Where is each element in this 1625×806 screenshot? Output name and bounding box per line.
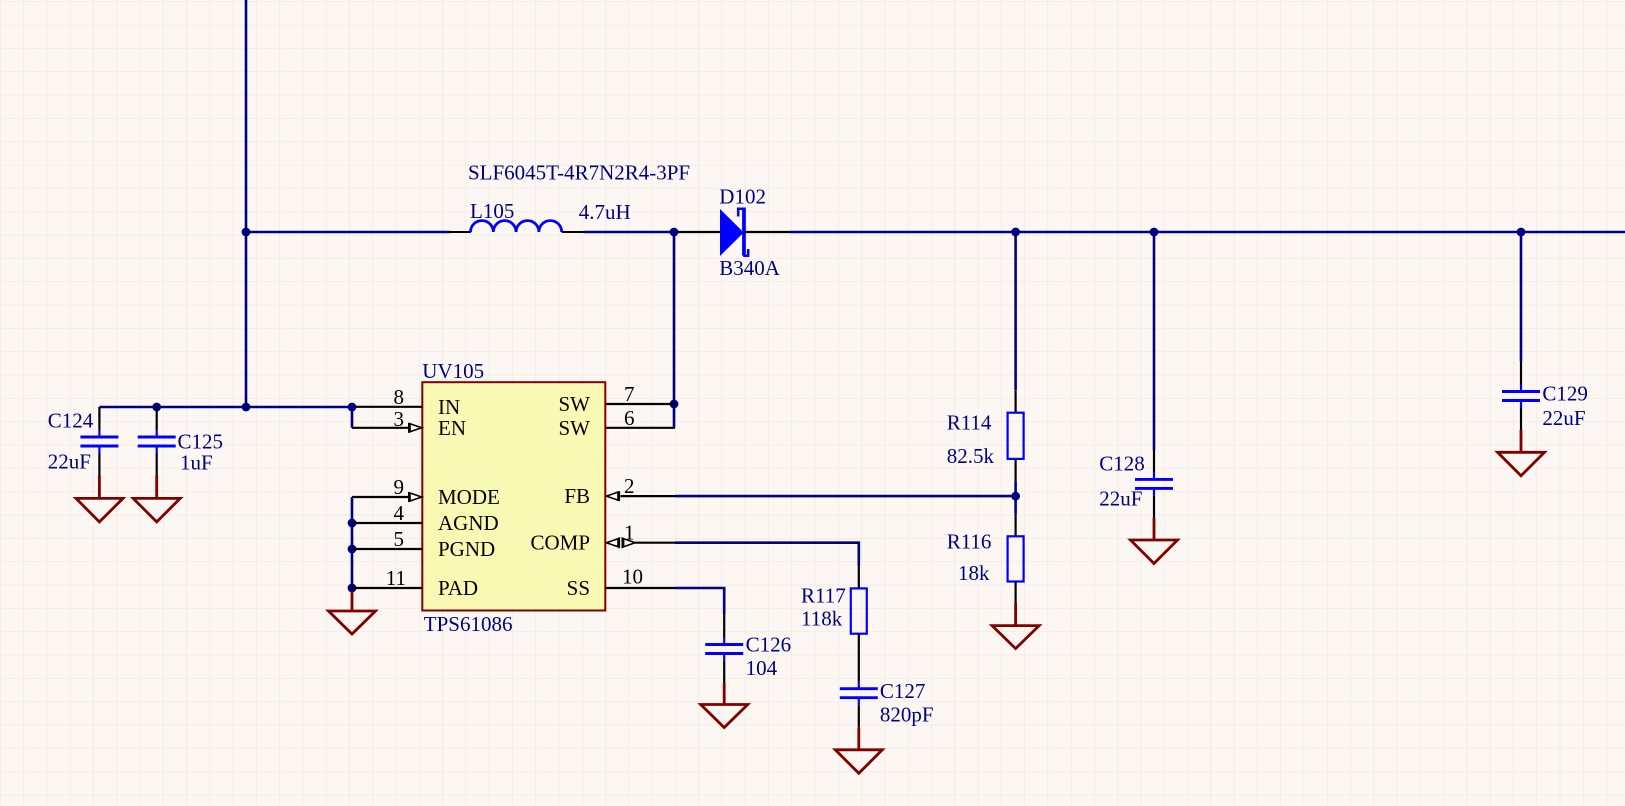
svg-text:6: 6	[624, 406, 635, 430]
svg-text:EN: EN	[438, 416, 466, 440]
wire pin 7 SW	[605, 403, 675, 405]
ground below C129	[1498, 430, 1545, 476]
node junction AGND	[348, 519, 357, 528]
node junction R114 branch	[1011, 228, 1020, 237]
svg-text:4: 4	[394, 501, 405, 525]
capacitor C124	[80, 407, 118, 476]
ground below PAD	[329, 591, 376, 634]
capacitor C127	[840, 689, 878, 728]
svg-text:SW: SW	[559, 416, 591, 440]
resistor R117	[851, 588, 867, 633]
wire diode anode pin	[674, 231, 720, 233]
svg-text:2: 2	[624, 474, 635, 498]
svg-text:7: 7	[624, 382, 635, 406]
svg-text:22uF: 22uF	[48, 450, 91, 474]
wire SS net	[675, 588, 724, 614]
resistor R116	[1008, 536, 1024, 581]
wire MODE horizontal	[352, 496, 408, 498]
pin 3 EN input arrow	[409, 423, 422, 433]
pin 1 COMP io arrows	[606, 537, 635, 548]
wire pin 8 IN	[352, 406, 422, 408]
svg-text:D102: D102	[719, 184, 766, 208]
diode D102 cathode bar	[738, 209, 748, 256]
wire inductor left pin	[448, 231, 471, 233]
svg-text:3: 3	[394, 407, 405, 431]
wire R116 top pin	[1014, 514, 1016, 537]
svg-text:C129: C129	[1542, 382, 1588, 406]
svg-text:22uF: 22uF	[1099, 487, 1142, 511]
wire IN net horizontal	[99, 406, 352, 409]
node junction C125 top	[152, 403, 161, 412]
capacitor C125	[138, 407, 176, 476]
wire main horizontal top net	[246, 231, 450, 234]
svg-text:R114: R114	[947, 410, 992, 434]
capacitor C129	[1502, 361, 1540, 430]
ground below C128	[1131, 518, 1178, 564]
svg-text:AGND: AGND	[438, 511, 499, 535]
svg-text:B340A: B340A	[719, 256, 781, 280]
node junction C129 branch	[1517, 228, 1526, 237]
wire R117 top pin	[858, 566, 860, 588]
svg-text:SS: SS	[567, 576, 590, 600]
op-amp U1 ic body UV105 TPS61086	[422, 382, 605, 610]
wire pin 6 SW	[605, 427, 675, 429]
svg-text:9: 9	[394, 475, 405, 499]
svg-text:C126: C126	[746, 633, 792, 657]
wire R116 bottom pin	[1014, 582, 1016, 604]
wire COMP net	[675, 543, 859, 566]
wire C126 top pin	[723, 614, 725, 638]
svg-text:118k: 118k	[801, 606, 843, 630]
node junction main/input	[242, 228, 251, 237]
wire SW vertical from main to pins	[673, 232, 676, 428]
node junction input vertical	[242, 403, 251, 412]
svg-text:8: 8	[394, 385, 405, 409]
wire diode cathode pin	[744, 231, 790, 233]
wire FB pin	[621, 495, 676, 497]
svg-text:L105: L105	[470, 199, 514, 223]
svg-text:5: 5	[394, 527, 405, 551]
resistor R114	[1008, 413, 1024, 459]
node junction PAD	[348, 584, 357, 593]
wire MODE net vertical	[351, 497, 354, 592]
wire C128 branch vertical	[1153, 232, 1156, 450]
node junction EN branch	[348, 403, 357, 412]
svg-text:104: 104	[746, 656, 778, 680]
svg-text:1uF: 1uF	[180, 451, 213, 475]
svg-text:PAD: PAD	[438, 576, 478, 600]
node junction SW pin7	[670, 400, 679, 409]
wire pin 5 PGND	[352, 548, 422, 550]
svg-text:C127: C127	[880, 679, 926, 703]
wire output net horizontal	[790, 231, 1625, 234]
svg-text:82.5k: 82.5k	[947, 444, 995, 468]
wire R114 bottom pin	[1014, 459, 1016, 482]
wire pin 4 AGND	[352, 522, 422, 524]
ground below R116	[992, 603, 1039, 649]
svg-text:820pF: 820pF	[880, 703, 934, 727]
pin 9 MODE input arrow	[409, 492, 422, 502]
wire C129 branch vertical	[1520, 232, 1523, 361]
svg-text:SW: SW	[559, 392, 591, 416]
wire EN horizontal	[352, 427, 408, 429]
svg-text:C128: C128	[1099, 451, 1145, 475]
wire FB net	[675, 495, 1016, 498]
svg-text:FB: FB	[564, 484, 590, 508]
diode D102 triangle	[720, 209, 744, 256]
node junction SW branch	[670, 228, 679, 237]
svg-text:PGND: PGND	[438, 537, 495, 561]
capacitor C128	[1135, 450, 1173, 518]
wire EN branch vertical	[351, 407, 354, 428]
capacitor C126	[705, 645, 743, 684]
wire COMP pin	[635, 542, 675, 544]
svg-text:UV105: UV105	[422, 359, 484, 383]
node junction PGND	[348, 545, 357, 554]
wire pin 11 PAD	[352, 587, 422, 589]
wire R114 branch vertical	[1014, 232, 1017, 390]
ground below C125	[133, 476, 180, 522]
svg-text:22uF: 22uF	[1542, 406, 1585, 430]
svg-text:C124: C124	[48, 409, 94, 433]
ground below C124	[76, 476, 123, 522]
svg-text:SLF6045T-4R7N2R4-3PF: SLF6045T-4R7N2R4-3PF	[468, 161, 690, 185]
ground below C126	[701, 683, 748, 728]
svg-text:COMP: COMP	[530, 531, 590, 555]
svg-text:R116: R116	[947, 529, 992, 553]
svg-text:MODE: MODE	[438, 485, 500, 509]
svg-text:TPS61086: TPS61086	[424, 612, 513, 636]
ground below C127	[835, 728, 882, 774]
node junction FB	[1011, 492, 1020, 501]
wire SW net horizontal	[584, 231, 674, 234]
svg-text:18k: 18k	[958, 561, 990, 585]
pin 2 FB input arrow	[606, 491, 619, 501]
svg-text:11: 11	[386, 566, 406, 590]
wire inductor right pin	[562, 231, 584, 233]
svg-text:R117: R117	[801, 583, 846, 607]
inductor L105	[471, 221, 562, 232]
svg-text:10: 10	[622, 565, 643, 589]
wire FB junction vertical	[1014, 481, 1017, 513]
wire R114 top pin	[1014, 390, 1016, 413]
node junction C128 branch	[1150, 228, 1159, 237]
svg-text:4.7uH: 4.7uH	[579, 200, 631, 224]
wire SS pin	[605, 587, 675, 589]
wire R117 to C127	[858, 634, 860, 682]
wire vertical input net	[245, 0, 248, 407]
